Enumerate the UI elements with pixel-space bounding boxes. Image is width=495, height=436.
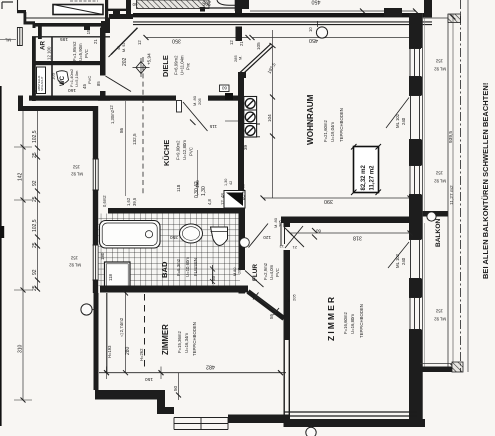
svg-text:F=6,99m2: F=6,99m2 <box>174 55 179 75</box>
svg-text:60: 60 <box>221 86 227 91</box>
wall neighbour divider 2 <box>235 0 242 14</box>
svg-text:H=193: H=193 <box>107 345 112 358</box>
wall main top thick <box>133 13 432 17</box>
wall neighbour hatched <box>137 0 210 9</box>
svg-text:ABSTELLR.: ABSTELLR. <box>37 75 41 91</box>
wall east pier 6 bottom <box>409 330 422 428</box>
bathtub <box>100 221 161 249</box>
circle symbol west wall <box>81 304 92 315</box>
svg-text:310: 310 <box>18 344 24 353</box>
svg-text:25: 25 <box>32 152 38 158</box>
svg-text:102,5: 102,5 <box>32 130 38 143</box>
svg-text:ML 92: ML 92 <box>69 263 81 268</box>
svg-text:U=5,90m: U=5,90m <box>78 43 83 61</box>
door swing WC->DIELE <box>106 76 132 92</box>
svg-text:1,30m2: 1,30m2 <box>110 109 115 124</box>
svg-text:25: 25 <box>32 285 38 291</box>
svg-text:ZIMMER: ZIMMER <box>326 295 336 341</box>
svg-text:◁ 2,74m2: ◁ 2,74m2 <box>119 317 124 337</box>
svg-text:12: 12 <box>279 244 284 249</box>
door swing flur->wohnraum <box>249 224 269 248</box>
svg-text:F=9,90m2: F=9,90m2 <box>176 140 181 160</box>
svg-text:104: 104 <box>267 114 272 122</box>
svg-text:102,5: 102,5 <box>32 219 38 232</box>
svg-text:ML 102: ML 102 <box>395 253 400 268</box>
dim chain A x37 <box>37 111 39 290</box>
svg-text:F=15,36m2: F=15,36m2 <box>177 331 182 353</box>
dim 104 shaft <box>272 46 274 198</box>
svg-text:115: 115 <box>209 124 217 129</box>
dim line 450 upper <box>250 10 416 12</box>
svg-text:U=12,80m: U=12,80m <box>182 140 187 160</box>
wall east pier 4 corner <box>409 195 422 240</box>
balcony divider <box>422 211 448 217</box>
svg-text:ML 92: ML 92 <box>71 172 83 177</box>
svg-text:60: 60 <box>132 2 137 7</box>
svg-text:4,8: 4,8 <box>207 199 212 205</box>
window e3 <box>409 166 421 195</box>
bad tiled floor <box>99 214 241 292</box>
wall AR top line <box>32 36 110 38</box>
svg-text:1,30: 1,30 <box>224 179 228 186</box>
svg-text:PVC: PVC <box>87 76 92 84</box>
wall east outer face <box>422 13 424 427</box>
svg-text:82,32 m2: 82,32 m2 <box>361 164 367 190</box>
neighbour blob <box>113 11 120 16</box>
svg-text:450: 450 <box>312 0 321 5</box>
svg-text:180: 180 <box>100 252 105 260</box>
svg-text:ML 92: ML 92 <box>434 67 446 72</box>
svg-text:21: 21 <box>93 39 98 44</box>
svg-text:152: 152 <box>72 165 80 170</box>
svg-text:202: 202 <box>122 57 128 66</box>
svg-text:10: 10 <box>308 27 313 32</box>
svg-text:ML 92: ML 92 <box>434 317 446 322</box>
svg-text:ML 102: ML 102 <box>395 113 400 128</box>
wall bad west mid <box>93 190 98 245</box>
svg-text:152: 152 <box>435 171 443 176</box>
wall WC south <box>29 96 110 101</box>
svg-text:150: 150 <box>86 26 92 34</box>
circle bottom <box>306 427 316 436</box>
svg-text:FLUR: FLUR <box>252 264 259 281</box>
duct box with triangle <box>224 191 245 209</box>
wall wohnraum south <box>281 217 414 224</box>
property line solid <box>467 0 469 372</box>
wall entry pier left <box>38 23 42 39</box>
svg-text:390: 390 <box>324 198 333 204</box>
elevation diamond diele <box>136 62 146 74</box>
svg-text:150: 150 <box>145 376 153 382</box>
wall offset south of wc <box>18 106 98 111</box>
svg-text:482: 482 <box>206 364 215 370</box>
wall zimmer2 west upper <box>284 223 291 227</box>
svg-text:12: 12 <box>109 105 114 110</box>
door entry diagonal <box>111 28 138 55</box>
svg-text:BALKON: BALKON <box>435 219 442 247</box>
wall neighbour stub right of tub <box>242 0 249 9</box>
svg-text:ZIMMER: ZIMMER <box>161 324 170 355</box>
svg-text:280: 280 <box>125 346 131 355</box>
svg-text:25: 25 <box>32 242 38 248</box>
svg-text:152: 152 <box>435 59 443 64</box>
svg-text:450: 450 <box>309 37 318 43</box>
dashed line kueche/diele <box>142 57 144 196</box>
wall entry corner <box>101 21 110 33</box>
svg-text:AR: AR <box>40 41 47 50</box>
svg-text:TEPPICHBODEN: TEPPICHBODEN <box>192 322 197 356</box>
svg-text:11,27 m2: 11,27 m2 <box>449 185 455 205</box>
svg-text:1,62: 1,62 <box>126 197 131 206</box>
svg-text:205: 205 <box>278 220 283 227</box>
svg-text:105: 105 <box>256 42 261 50</box>
svg-text:12 100: 12 100 <box>47 46 52 60</box>
dim pointer kueche <box>225 120 238 122</box>
svg-text:120: 120 <box>263 235 271 240</box>
balcony south wall <box>420 367 463 373</box>
door kueche swing <box>183 102 208 131</box>
svg-text:42: 42 <box>229 181 233 185</box>
wall bottom mid <box>228 415 290 424</box>
svg-text:1,30: 1,30 <box>201 186 207 196</box>
svg-text:86: 86 <box>119 127 124 133</box>
balcony door zimmer2 <box>409 240 421 279</box>
wc bowl <box>57 71 69 84</box>
svg-text:U=11,04m: U=11,04m <box>180 55 185 75</box>
window e5 <box>409 298 421 330</box>
dim line 350 diele <box>146 37 248 39</box>
svg-text:FLIESEN: FLIESEN <box>193 258 198 276</box>
svg-text:U=4,0m: U=4,0m <box>269 264 274 280</box>
svg-text:F=21,60m2: F=21,60m2 <box>323 120 328 142</box>
svg-text:PVC: PVC <box>275 268 280 277</box>
door wohnraum/flur jambs <box>281 223 285 246</box>
wall AR west inner line <box>51 37 53 96</box>
wall kueche east <box>238 72 244 196</box>
wc bad <box>211 227 228 246</box>
svg-text:142: 142 <box>18 172 24 181</box>
svg-text:M. 92: M. 92 <box>122 43 126 53</box>
wall diagonal diele/wohnraum <box>240 46 273 76</box>
svg-text:205: 205 <box>202 0 211 6</box>
window west entry <box>17 28 23 46</box>
svg-text:132,5: 132,5 <box>132 133 137 145</box>
svg-text:U=16,80m: U=16,80m <box>350 314 355 334</box>
svg-text:F=1,95m2: F=1,95m2 <box>72 41 77 61</box>
svg-text:M.: M. <box>238 56 243 60</box>
svg-text:BO 48/90: BO 48/90 <box>242 184 246 200</box>
svg-text:939,5: 939,5 <box>448 131 454 143</box>
door swing bad->flur <box>245 271 264 288</box>
washing machine <box>105 262 131 288</box>
wall bad west lower <box>93 280 98 293</box>
wall zimmer1 west <box>94 293 99 390</box>
pipe circle bad <box>240 238 250 248</box>
svg-text:35: 35 <box>32 89 38 95</box>
svg-text:PVC: PVC <box>189 147 194 156</box>
svg-text:ML 80: ML 80 <box>286 290 291 302</box>
wall AR west outer <box>32 37 36 102</box>
wall east pier 3 <box>409 140 422 166</box>
balcony top edge <box>423 17 449 19</box>
scan edge line left <box>0 86 2 426</box>
svg-text:118: 118 <box>108 273 113 281</box>
wall neighbour piece right <box>384 8 402 17</box>
svg-text:WC: WC <box>60 75 66 86</box>
svg-text:ML 92: ML 92 <box>434 179 446 184</box>
wall zimmer2 south <box>284 412 417 416</box>
svg-text:85: 85 <box>96 81 101 86</box>
wall east pier 2 <box>409 77 422 96</box>
svg-text:105: 105 <box>51 72 56 80</box>
svg-text:205: 205 <box>292 294 297 301</box>
svg-text:WOHNRAUM: WOHNRAUM <box>306 94 315 145</box>
svg-text:U=5,10m: U=5,10m <box>74 70 79 87</box>
wall corridor step <box>109 14 133 19</box>
wall zimmer1 south face / dim line 482 <box>99 372 286 374</box>
dim line 280 <box>125 293 127 373</box>
corner mark top-left <box>2 2 13 9</box>
wall east pier 5 <box>409 279 422 298</box>
svg-text:350: 350 <box>170 234 178 240</box>
svg-text:21: 21 <box>239 41 244 46</box>
svg-text:55: 55 <box>211 275 216 281</box>
wall AR/WC divider <box>32 61 106 65</box>
wall zimmer2 west <box>284 250 291 340</box>
wall top right corner pier <box>424 0 432 17</box>
wall bad east stub <box>239 288 246 294</box>
dim line 390 <box>263 197 410 199</box>
wall step down <box>157 390 165 414</box>
dashed line zimmer1 <box>144 294 146 367</box>
svg-text:11,27 m2: 11,27 m2 <box>370 165 376 191</box>
svg-text:39,5: 39,5 <box>132 197 137 206</box>
svg-text:U=16,34m: U=16,34m <box>184 333 189 353</box>
door zimmer2 west <box>284 227 304 247</box>
wardrobe crossed box <box>53 5 103 15</box>
svg-text:39: 39 <box>243 144 248 150</box>
svg-text:PVC: PVC <box>84 49 89 58</box>
svg-text:50: 50 <box>173 385 178 391</box>
wall stub diele/wohnraum <box>236 27 243 42</box>
svg-text:21: 21 <box>292 245 297 250</box>
dim line 450 lower wohnraum <box>252 37 412 39</box>
wall kueche south / bad north <box>108 208 245 214</box>
shaft circles <box>245 99 255 136</box>
wall step left <box>95 390 160 400</box>
svg-text:55: 55 <box>269 313 274 319</box>
dim line 939,5 <box>452 14 454 370</box>
svg-text:F=16,60m2: F=16,60m2 <box>343 312 348 334</box>
wall entry pier mid <box>84 23 90 30</box>
svg-text:U=10,60m: U=10,60m <box>185 257 190 277</box>
wall neighbour corridor vertical <box>105 0 108 18</box>
svg-text:Pvc: Pvc <box>186 62 191 70</box>
window e1 <box>409 49 421 77</box>
wall neighbour stair left <box>25 17 110 19</box>
neighbour corridor line <box>108 9 126 11</box>
wall stub below wc door <box>100 91 106 101</box>
wall kueche east top corner <box>238 72 246 78</box>
property line dashdot <box>460 0 462 372</box>
svg-text:F=2,9m2: F=2,9m2 <box>263 262 268 280</box>
svg-text:TEPPICHBODEN: TEPPICHBODEN <box>339 108 344 142</box>
svg-text:BEI ALLEN BALKONTÜREN SCHWELLE: BEI ALLEN BALKONTÜREN SCHWELLEN BEACHTEN… <box>481 83 490 279</box>
wall main top inner lines <box>133 22 432 25</box>
bathtub neighbour corner <box>217 0 235 5</box>
dim 50 <box>178 373 180 400</box>
svg-text:240: 240 <box>401 117 406 125</box>
svg-text:TEPPICHBODEN: TEPPICHBODEN <box>359 304 364 338</box>
wall neighbour corridor pier <box>105 19 110 29</box>
chamfer wall zimmer1 <box>248 292 284 319</box>
svg-text:12: 12 <box>229 40 234 45</box>
svg-text:350: 350 <box>172 37 181 43</box>
svg-text:12: 12 <box>137 40 142 45</box>
svg-text:KÜCHE: KÜCHE <box>162 140 171 166</box>
wire <box>0 0 1 1</box>
window bottom <box>174 418 228 430</box>
shaft dark kueche door <box>225 93 233 100</box>
svg-text:160: 160 <box>68 87 76 93</box>
svg-text:240: 240 <box>401 257 406 265</box>
svg-text:152: 152 <box>435 309 443 314</box>
svg-text:318: 318 <box>353 235 362 241</box>
wall corner steps top-left <box>17 0 19 11</box>
shaft box WC left <box>37 67 46 94</box>
wall diele west (block east wall) <box>100 28 106 76</box>
wall bad south <box>100 286 248 293</box>
wall bad east <box>239 208 246 270</box>
wall kueche west upper <box>93 106 98 159</box>
svg-text:DIELE: DIELE <box>161 55 170 77</box>
svg-text:92: 92 <box>32 269 38 275</box>
window kueche west <box>93 159 99 190</box>
svg-text:U=19,04m: U=19,04m <box>330 122 335 142</box>
svg-text:92: 92 <box>32 180 38 186</box>
svg-text:BAD: BAD <box>160 261 169 278</box>
door kueche leaf <box>177 101 182 113</box>
wall corner left below wc <box>18 96 23 112</box>
dim 60 box kueche door <box>220 85 230 92</box>
area box <box>354 147 379 193</box>
kitchen shaft block <box>244 97 257 138</box>
balcony door wohnraum <box>409 96 421 140</box>
svg-text:F=6,3m2: F=6,3m2 <box>176 258 181 276</box>
svg-text:118: 118 <box>176 184 181 192</box>
svg-text:ML: ML <box>5 38 11 43</box>
svg-text:0,30 42: 0,30 42 <box>194 181 200 198</box>
balcony edge line <box>447 14 449 372</box>
svg-text:152: 152 <box>70 256 78 261</box>
svg-text:M 80: M 80 <box>233 268 237 276</box>
dim line 318 <box>290 232 410 234</box>
svg-text:0,6m2: 0,6m2 <box>102 195 107 207</box>
dim chain B x23 <box>22 111 24 400</box>
svg-text:H=262: H=262 <box>139 348 144 361</box>
svg-text:195: 195 <box>60 36 68 42</box>
svg-text:205: 205 <box>197 98 202 105</box>
svg-text:+5,94: +5,94 <box>147 53 152 65</box>
wall neighbour pier entry <box>126 0 131 19</box>
wall entry band <box>33 23 110 27</box>
balcony north hatch <box>448 14 461 23</box>
window bad west <box>93 245 99 280</box>
wall diele/kueche divider <box>98 96 176 101</box>
washbasin <box>180 224 203 243</box>
wall east pier 1 <box>409 13 422 48</box>
svg-text:25: 25 <box>32 196 38 202</box>
column circle wohnraum top <box>316 27 327 38</box>
